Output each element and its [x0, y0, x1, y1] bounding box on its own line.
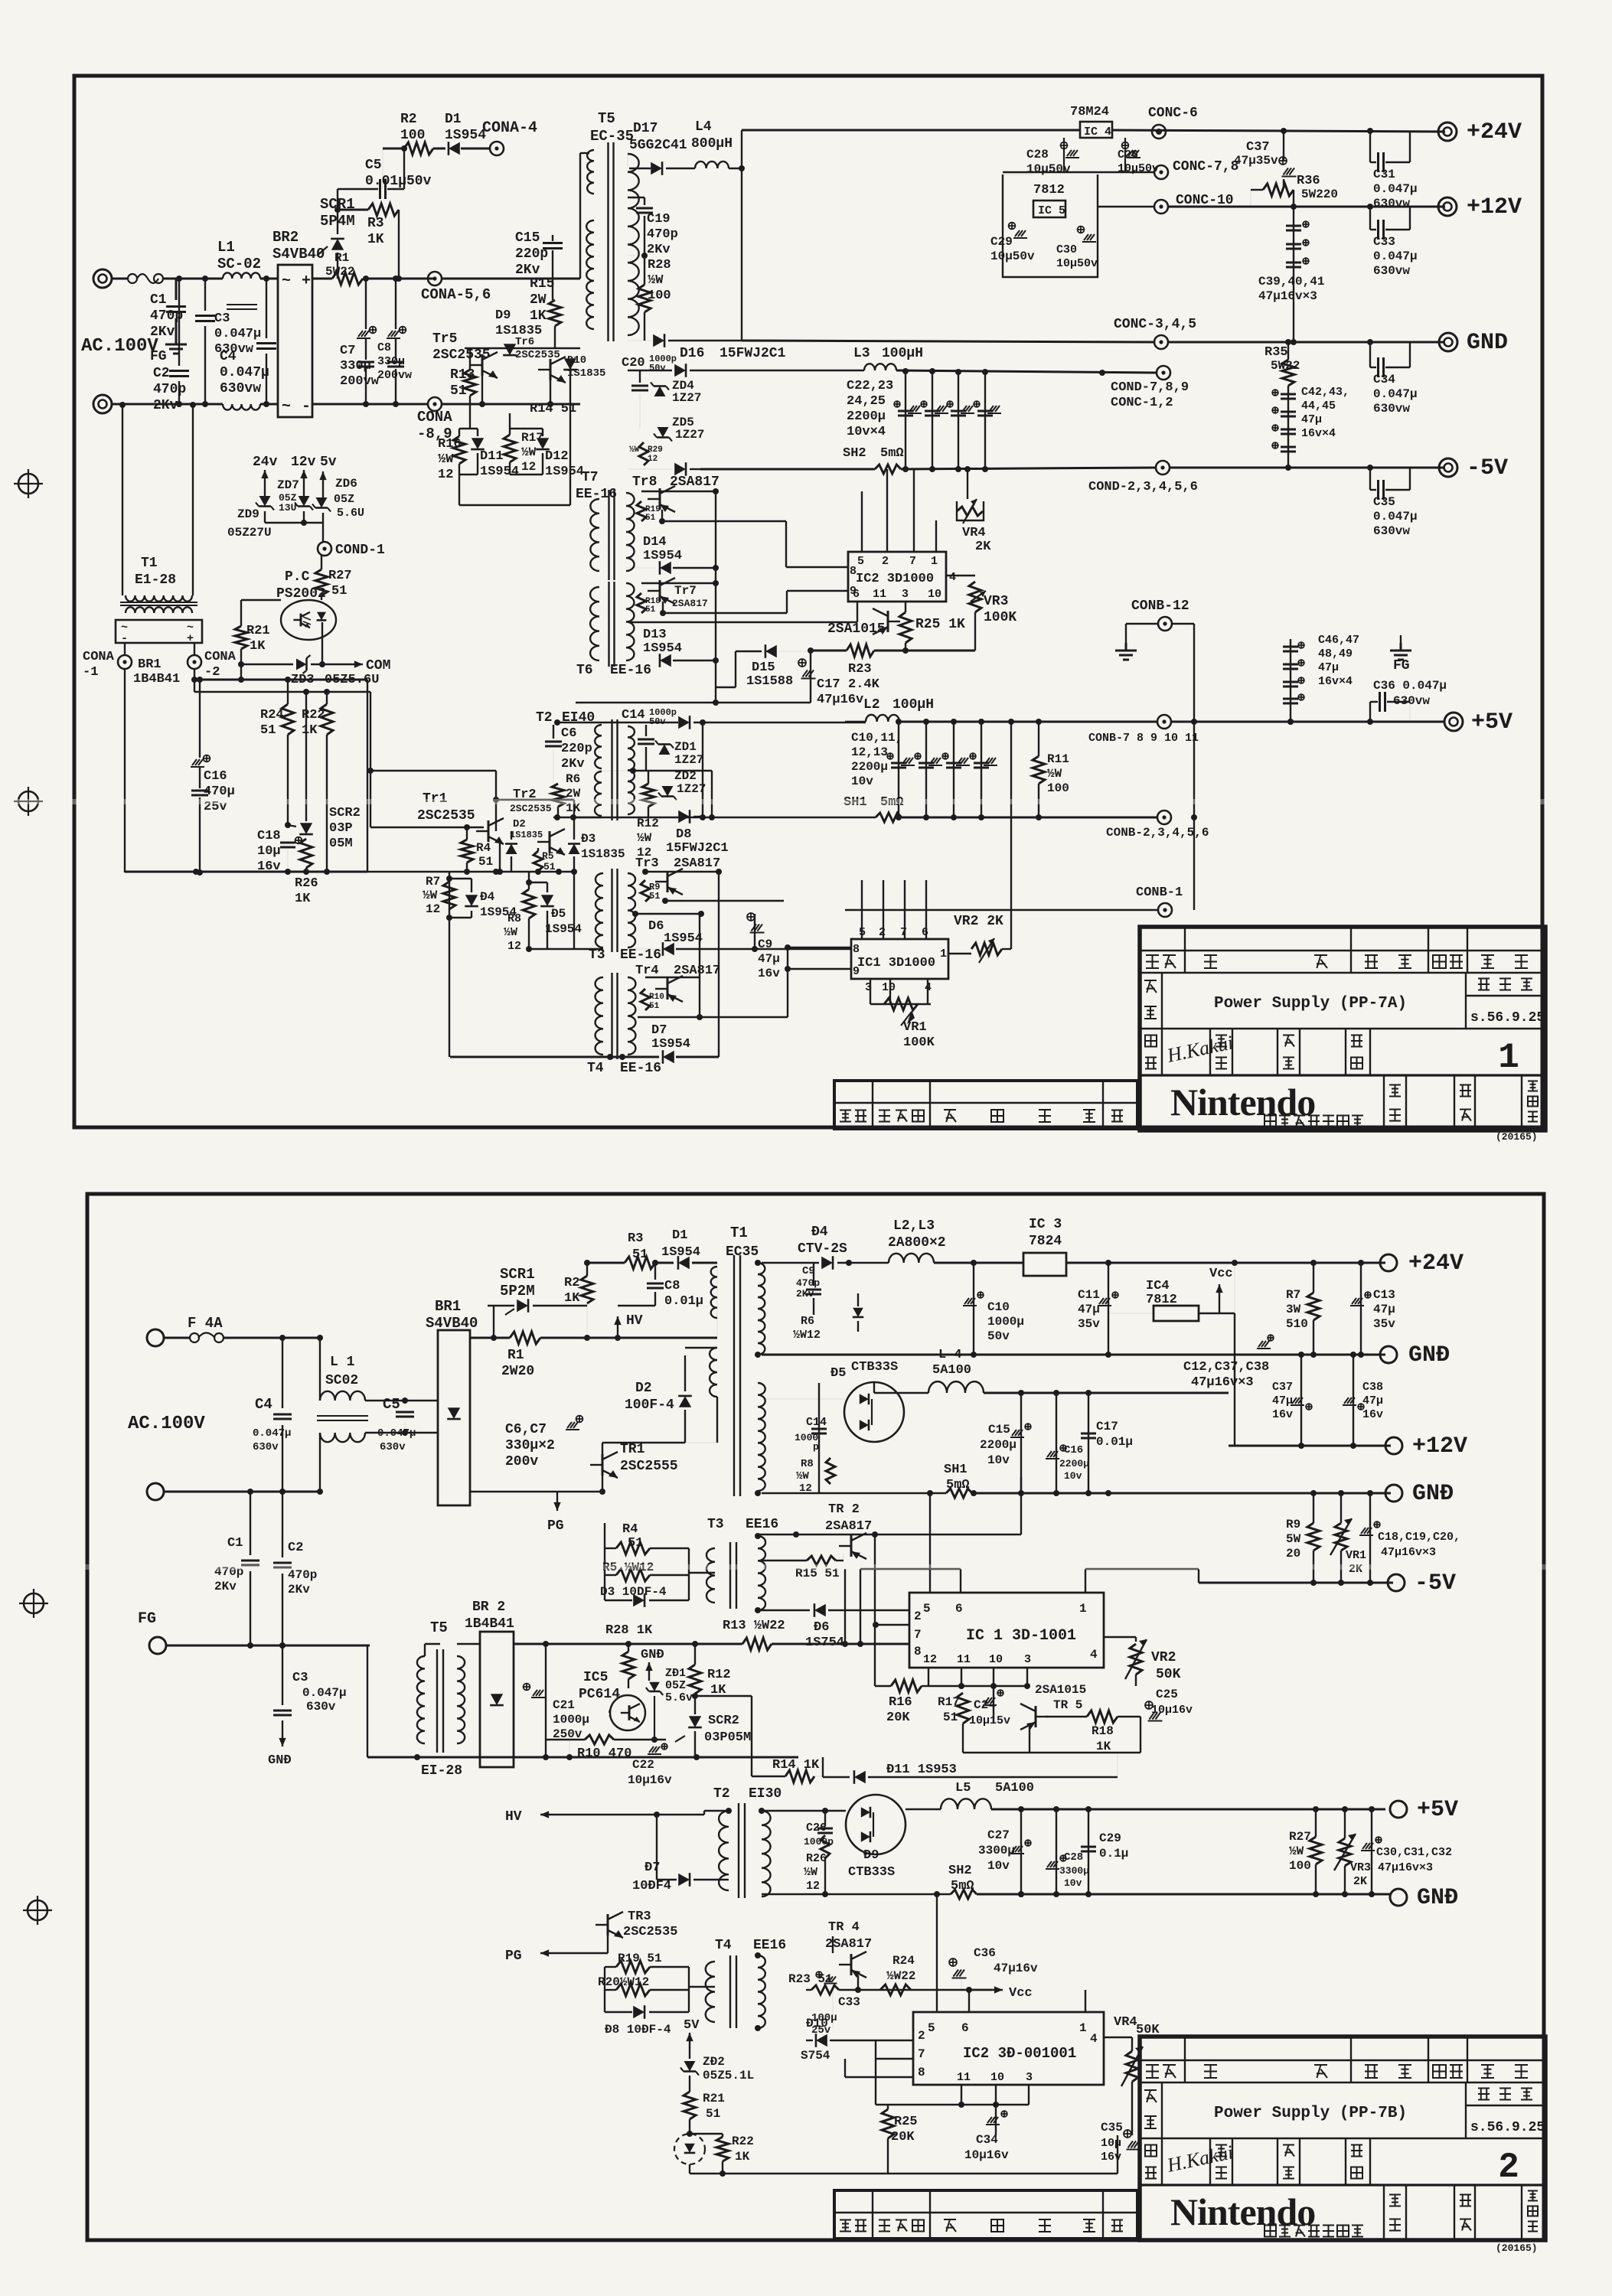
svg-text:2SC2535: 2SC2535: [432, 347, 491, 363]
resistor R18: [1046, 1716, 1087, 1717]
svg-text:D2: D2: [513, 818, 526, 830]
svg-text:C28: C28: [1026, 148, 1049, 161]
resistor R2: [383, 148, 404, 150]
svg-text:5.6v: 5.6v: [665, 1691, 693, 1704]
svg-text:47µ: 47µ: [1301, 413, 1322, 426]
vertical x1143 p2: [874, 1534, 876, 1686]
capacitor C2: [178, 279, 180, 366]
svg-text:C30: C30: [1056, 243, 1077, 256]
svg-text:Tr6: Tr6: [515, 336, 534, 348]
capacitor C30-32 p2: [1371, 1809, 1372, 1894]
svg-text:C14: C14: [806, 1416, 827, 1429]
terminal -5V: [1439, 458, 1457, 477]
svg-text:R17: R17: [938, 1695, 960, 1709]
svg-text:D2: D2: [635, 1381, 652, 1396]
wire T5 tap: [628, 255, 644, 256]
svg-text:½W: ½W: [504, 926, 517, 939]
svg-text:D1: D1: [672, 1228, 687, 1243]
svg-text:C38: C38: [1362, 1381, 1383, 1394]
svg-text:R21: R21: [703, 2092, 725, 2105]
transistor TR5: [1035, 1706, 1037, 1727]
wire bottom input: [164, 1491, 320, 1493]
svg-text:R3: R3: [367, 216, 384, 231]
svg-text:51: 51: [628, 1536, 643, 1551]
svg-text:1S954: 1S954: [643, 641, 682, 656]
svg-text:R8: R8: [507, 912, 521, 925]
svg-text:GNÐ: GNÐ: [1408, 1342, 1450, 1368]
arrow PG2: [540, 1952, 574, 1954]
capacitor C37: [1283, 131, 1284, 161]
wire TR1 collector: [602, 1443, 603, 1454]
svg-text:47µ: 47µ: [758, 952, 780, 966]
caps C42-45: [1281, 393, 1296, 396]
vertical x648: [495, 771, 497, 831]
svg-text:s.56.9.25: s.56.9.25: [1470, 1010, 1545, 1026]
svg-text:SCR1: SCR1: [500, 1266, 535, 1283]
svg-text:3W: 3W: [1286, 1303, 1301, 1316]
svg-text:0.047µ: 0.047µ: [377, 1427, 416, 1440]
wire x969: [741, 130, 742, 341]
svg-text:9: 9: [850, 585, 857, 598]
svg-text:+5V: +5V: [1417, 1797, 1458, 1823]
svg-text:ZD7: ZD7: [277, 478, 299, 492]
svg-text:47µ16v×3: 47µ16v×3: [1191, 1375, 1254, 1390]
svg-text:10µ16v: 10µ16v: [964, 2148, 1009, 2162]
capacitor C35 p2: [1117, 2135, 1118, 2174]
svg-text:Ð5: Ð5: [551, 907, 566, 921]
svg-text:250v: 250v: [553, 1727, 582, 1741]
svg-text:Ð5: Ð5: [830, 1366, 846, 1381]
svg-text:C3: C3: [214, 311, 230, 326]
svg-text:10µ50v: 10µ50v: [1118, 162, 1159, 175]
svg-text:C22: C22: [632, 1758, 654, 1772]
svg-text:1S954: 1S954: [445, 128, 486, 143]
diode D8: [678, 810, 690, 823]
capacitor C15 p2: [1020, 1393, 1022, 1493]
SCR1: [337, 253, 338, 279]
wire conc78: [1003, 171, 1154, 173]
svg-text:1: 1: [1498, 1038, 1519, 1078]
capacitor C18-20 p2: [1369, 1493, 1371, 1583]
svg-text:CONC-10: CONC-10: [1176, 193, 1234, 208]
wire y1045: [496, 799, 574, 801]
connector CONA-5,6: [428, 272, 442, 285]
svg-text:2SA1015: 2SA1015: [1035, 1683, 1086, 1697]
svg-text:VR4: VR4: [962, 526, 986, 540]
capacitor C21: [545, 1644, 547, 1757]
svg-text:3300µ: 3300µ: [1059, 1865, 1089, 1877]
svg-text:1: 1: [1079, 1602, 1087, 1616]
wire conb12: [1172, 623, 1194, 625]
svg-text:47µ35v: 47µ35v: [1234, 154, 1278, 168]
svg-text:51: 51: [260, 723, 276, 738]
connector CONB-12: [1158, 617, 1172, 631]
svg-text:~: ~: [282, 272, 291, 290]
svg-text:5W22: 5W22: [325, 265, 354, 279]
svg-text:1Z27: 1Z27: [675, 428, 704, 442]
transistor TR4 p2: [850, 1954, 853, 1975]
svg-text:3: 3: [1024, 1653, 1031, 1666]
vertical x480 p2: [367, 1645, 368, 1757]
wire y2216: [695, 1695, 752, 1697]
svg-text:-5V: -5V: [1467, 455, 1508, 481]
svg-text:R23: R23: [848, 662, 872, 677]
resistor R29: [639, 442, 648, 465]
connector COND-1: [318, 542, 331, 556]
svg-text:SC-02: SC-02: [217, 256, 261, 272]
resistor R9 p2: [1313, 1493, 1314, 1523]
svg-text:FG: FG: [138, 1610, 156, 1628]
diode D19: [674, 463, 686, 475]
inductor L1: [223, 272, 260, 279]
title block panel 2: [1140, 2037, 1545, 2240]
capacitor C26 p2: [762, 1810, 846, 1812]
svg-text:S4VB40: S4VB40: [426, 1315, 478, 1332]
wire Tr5 emitter: [481, 376, 483, 404]
svg-text:R24: R24: [260, 708, 284, 722]
wire y2203: [875, 1685, 891, 1687]
zener ZD7: [299, 496, 310, 507]
resistor R2 p2: [586, 1276, 588, 1306]
capacitor C28 p2: [1056, 1809, 1057, 1894]
svg-text:ZÐ2: ZÐ2: [703, 2055, 725, 2069]
svg-text:CONC-1,2: CONC-1,2: [1111, 396, 1173, 410]
svg-text:S4VB40: S4VB40: [272, 246, 325, 263]
SCR2: [300, 823, 312, 834]
svg-text:100: 100: [1289, 1859, 1311, 1873]
svg-text:SH2: SH2: [948, 1864, 972, 1878]
shunt SH1 p2: [762, 1492, 946, 1494]
zener ZD5: [658, 427, 669, 438]
diode D7 p2: [657, 1879, 677, 1880]
resistor R26: [300, 839, 312, 868]
svg-text:Ð6: Ð6: [814, 1620, 829, 1635]
wire T2 bottom left: [553, 817, 602, 818]
diode D6 p2: [756, 1609, 810, 1611]
svg-text:3: 3: [1026, 2071, 1033, 2084]
IC2 pin6 riser: [968, 1990, 970, 2012]
junction: [334, 207, 341, 213]
svg-text:2Kv: 2Kv: [796, 1288, 814, 1300]
resistor R25: [899, 612, 912, 643]
svg-text:4: 4: [1090, 2032, 1098, 2046]
resistor R24 p2: [880, 1985, 911, 1995]
svg-text:5mΩ: 5mΩ: [951, 1879, 974, 1893]
svg-text:12: 12: [426, 902, 440, 916]
terminal GND p2c: [1390, 1889, 1407, 1906]
svg-text:R27: R27: [1289, 1830, 1311, 1844]
svg-text:(20165): (20165): [1496, 2242, 1538, 2254]
svg-text:T4: T4: [715, 1938, 732, 1953]
optocoupler PC: [281, 600, 336, 640]
capacitor C16 p2: [1056, 1393, 1057, 1493]
capacitor C19: [644, 197, 645, 205]
svg-text:50v: 50v: [987, 1329, 1010, 1343]
shunt SH2 p2: [762, 1893, 951, 1895]
svg-text:D12: D12: [545, 449, 569, 464]
IC2 pin1 riser: [1085, 1990, 1086, 2012]
diode D17: [629, 168, 651, 169]
svg-text:2W: 2W: [566, 787, 581, 801]
svg-text:SCR2: SCR2: [329, 806, 361, 820]
svg-text:C35: C35: [1373, 495, 1395, 509]
svg-text:(20165): (20165): [1496, 1131, 1538, 1143]
svg-text:s.56.9.25: s.56.9.25: [1470, 2120, 1545, 2135]
capacitor C36: [1369, 702, 1371, 722]
resistor R22: [321, 704, 333, 735]
capacitor C29 p2: [1088, 1809, 1089, 1894]
IC IC1: [851, 939, 948, 979]
svg-text:1K: 1K: [302, 723, 318, 738]
IC2 pin8 wire: [845, 2076, 913, 2078]
svg-text:C11: C11: [1078, 1288, 1100, 1302]
IC2 pin8 wire: [786, 566, 848, 568]
resistor R9s: [641, 880, 650, 902]
svg-text:BR 2: BR 2: [472, 1600, 505, 1615]
svg-text:630vw: 630vw: [1373, 264, 1410, 278]
svg-text:P.C: P.C: [285, 569, 310, 585]
svg-text:C27: C27: [987, 1828, 1010, 1842]
svg-text:R22: R22: [732, 2135, 754, 2148]
resistor R11: [1038, 722, 1039, 756]
svg-text:11: 11: [873, 588, 886, 601]
svg-text:51: 51: [645, 514, 656, 523]
rail -5V p2: [1198, 1569, 1199, 1583]
svg-text:C33: C33: [838, 1995, 860, 2009]
svg-text:+24V: +24V: [1408, 1251, 1464, 1277]
vertical x939: [718, 872, 720, 1057]
svg-text:5.6U: 5.6U: [337, 507, 364, 520]
svg-text:GND: GND: [1467, 330, 1508, 356]
svg-text:D15: D15: [752, 660, 775, 675]
connector CONA-8,9: [428, 397, 442, 411]
svg-text:47µ: 47µ: [1318, 661, 1339, 674]
capacitor C22: [649, 1746, 654, 1753]
svg-text:Vcc: Vcc: [1009, 1986, 1033, 2001]
scan streak 1: [0, 799, 1612, 804]
svg-text:EE-16: EE-16: [620, 947, 661, 963]
capacitor C3: [204, 279, 206, 311]
resistor R5: [537, 848, 539, 851]
terminal +5V p2: [1390, 1801, 1407, 1818]
svg-text:2Kv: 2Kv: [153, 398, 178, 413]
terminal FG: [149, 1637, 166, 1654]
svg-text:16v: 16v: [758, 967, 780, 980]
svg-text:C15: C15: [988, 1423, 1010, 1437]
svg-text:Tr4: Tr4: [635, 964, 659, 978]
svg-text:C36: C36: [974, 1946, 996, 1960]
svg-text:ZÐ1: ZÐ1: [665, 1667, 686, 1680]
svg-text:½W: ½W: [1289, 1844, 1304, 1858]
svg-text:C31: C31: [1373, 168, 1395, 181]
bridge BR1: [116, 620, 202, 643]
riser x1075: [822, 1757, 824, 1777]
svg-text:47µ: 47µ: [1362, 1394, 1383, 1407]
svg-text:R28: R28: [648, 258, 671, 272]
svg-text:12: 12: [806, 1880, 820, 1893]
caps C10-13: [898, 722, 899, 817]
svg-text:AC.100V: AC.100V: [81, 336, 158, 357]
svg-text:GNÐ: GNÐ: [1412, 1481, 1454, 1507]
svg-text:L3: L3: [853, 346, 870, 361]
capacitor C3 p2: [282, 1645, 283, 1705]
capacitor C10 p2: [973, 1263, 974, 1355]
svg-text:IC 3: IC 3: [1029, 1217, 1062, 1232]
svg-text:C12,C37,C38: C12,C37,C38: [1183, 1360, 1269, 1375]
resistor R25 p2: [882, 2109, 894, 2138]
capacitor C27 p2: [1020, 1809, 1022, 1894]
wire Tr4 out: [645, 977, 700, 978]
zener ZD9: [259, 496, 271, 507]
svg-text:10v: 10v: [851, 775, 873, 788]
connector CONC-10: [1154, 200, 1168, 214]
zener ZD6: [316, 497, 328, 508]
svg-text:ZD9: ZD9: [237, 507, 259, 521]
svg-text:-: -: [302, 398, 311, 416]
vertical x930: [711, 771, 713, 817]
capacitor C35: [1369, 468, 1371, 490]
svg-text:0.047µ: 0.047µ: [1373, 249, 1418, 263]
svg-text:330µ: 330µ: [377, 355, 405, 368]
resistor R24: [282, 704, 294, 735]
svg-text:7812: 7812: [1033, 183, 1065, 197]
ground GND p2a: [282, 1731, 283, 1746]
wire LED bottom: [689, 2164, 690, 2174]
svg-text:TR1: TR1: [620, 1442, 645, 1457]
svg-text:Ð11 1S953: Ð11 1S953: [886, 1763, 957, 1777]
rail +5V: [1171, 721, 1445, 723]
svg-text:7: 7: [918, 2047, 925, 2061]
wire Tr1 emitter: [499, 843, 501, 872]
diode D10 p2: [806, 2040, 813, 2041]
input terminal L: [147, 1329, 164, 1346]
terminal +12V p2: [1385, 1437, 1402, 1454]
IC IC2: [848, 552, 946, 602]
svg-text:Tr7: Tr7: [674, 584, 697, 598]
R4 R5 D3 network: [604, 1548, 605, 1600]
transformer T3 p2: [706, 1548, 715, 1603]
svg-text:Ð10: Ð10: [806, 2017, 828, 2030]
svg-text:7: 7: [900, 926, 907, 939]
vertical T1 left: [122, 405, 123, 595]
IC IC4: [1080, 122, 1112, 138]
wire SCR2 col: [305, 692, 307, 821]
diode D9: [504, 344, 516, 355]
wire rail to T5: [441, 278, 580, 280]
svg-text:220p: 220p: [515, 246, 548, 262]
resistor R6: [552, 784, 564, 807]
svg-text:1K: 1K: [530, 308, 547, 324]
svg-text:CONA: CONA: [204, 650, 237, 664]
terminal GND p2b: [1385, 1485, 1402, 1502]
svg-text:03P05M: 03P05M: [704, 1730, 751, 1745]
wire cluster bottom: [529, 948, 603, 950]
svg-text:100: 100: [1047, 781, 1069, 795]
connector CONA-1: [118, 655, 132, 669]
svg-text:VR3: VR3: [984, 594, 1008, 609]
wire y1007: [370, 770, 496, 771]
wire zener bottoms: [264, 511, 266, 523]
svg-text:630v: 630v: [253, 1441, 279, 1453]
diode D14: [660, 562, 671, 574]
svg-text:D10: D10: [567, 354, 586, 367]
svg-text:12v: 12v: [291, 455, 316, 470]
svg-text:100: 100: [648, 289, 671, 303]
wire T4 bottom rail: [450, 1056, 659, 1058]
svg-text:EE-16: EE-16: [620, 1061, 661, 1076]
transistor Tr4: [667, 978, 669, 1000]
svg-text:CONC-7,8: CONC-7,8: [1173, 159, 1238, 174]
svg-text:IC 4: IC 4: [1084, 126, 1111, 139]
capacitor C37 p2: [1300, 1355, 1302, 1446]
svg-text:2: 2: [882, 555, 889, 568]
IC IC5: [1033, 201, 1065, 217]
svg-text:CONB-7 8 9 10 11: CONB-7 8 9 10 11: [1088, 732, 1199, 745]
svg-text:2A800×2: 2A800×2: [888, 1235, 946, 1251]
IC5 loop: [1003, 174, 1098, 277]
terminal +5V: [1444, 713, 1463, 731]
svg-text:VR1: VR1: [1346, 1549, 1366, 1562]
svg-text:1S954: 1S954: [643, 549, 682, 563]
capacitor C30: [1078, 227, 1085, 233]
svg-text:C5: C5: [365, 158, 382, 173]
svg-text:C8: C8: [664, 1279, 680, 1293]
svg-text:1: 1: [1079, 2021, 1087, 2035]
svg-text:15FWJ2C1: 15FWJ2C1: [720, 346, 786, 361]
resistor R17 p2: [957, 1693, 969, 1724]
svg-text:C33: C33: [1373, 235, 1395, 249]
rail GND1: [742, 341, 1154, 342]
wire rail y1140: [125, 871, 367, 873]
circle D5: [844, 1382, 904, 1442]
svg-text:R12: R12: [707, 1668, 731, 1682]
svg-text:24,25: 24,25: [847, 394, 886, 409]
vertical x480: [367, 680, 368, 872]
svg-text:05Z27U: 05Z27U: [227, 526, 272, 540]
svg-text:EI-28: EI-28: [421, 1763, 462, 1779]
capacitor C24: [993, 1686, 994, 1722]
svg-text:D8: D8: [676, 827, 691, 842]
svg-text:R16: R16: [889, 1695, 912, 1710]
wire bottom rail: [112, 403, 223, 406]
svg-text:C26: C26: [806, 1821, 827, 1835]
svg-text:R35: R35: [1264, 345, 1288, 360]
hatch IC4 gnd: [1258, 1341, 1263, 1347]
input terminal N: [147, 1483, 164, 1500]
IC1 pin1 riser: [1085, 1569, 1086, 1593]
svg-text:51: 51: [706, 2107, 720, 2121]
svg-text:05Z: 05Z: [334, 493, 354, 506]
wire bottom rail to CONA-8,9: [312, 403, 429, 406]
svg-text:R28 1K: R28 1K: [605, 1623, 653, 1638]
svg-text:+12V: +12V: [1467, 194, 1522, 220]
svg-text:5A100: 5A100: [932, 1363, 971, 1378]
svg-text:+24V: +24V: [1467, 119, 1522, 145]
svg-text:0.047µ: 0.047µ: [253, 1427, 291, 1440]
svg-text:16v×4: 16v×4: [1301, 427, 1336, 440]
R19 R20 D8 network: [604, 1967, 605, 2012]
svg-text:COND-2,3,4,5,6: COND-2,3,4,5,6: [1088, 480, 1198, 494]
svg-text:10: 10: [928, 588, 941, 601]
svg-text:PG: PG: [547, 1518, 564, 1534]
diode D7: [663, 1051, 674, 1063]
rail -5V right: [1169, 467, 1445, 469]
pot VR1: [870, 1003, 931, 1005]
svg-text:1S1588: 1S1588: [746, 674, 793, 689]
svg-text:15FWJ2C1: 15FWJ2C1: [666, 841, 729, 856]
arrow PG: [602, 1476, 603, 1492]
rail +12V p2: [1229, 1445, 1391, 1447]
